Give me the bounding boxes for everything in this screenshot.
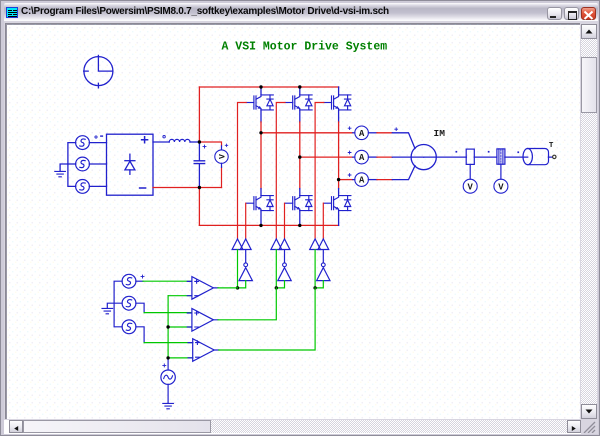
wire ctrl B to comp2 bbox=[136, 303, 144, 312]
wire ctrl A to comp1 bbox=[136, 280, 143, 282]
wire phase C bbox=[339, 179, 353, 181]
wire V probe top bbox=[199, 142, 221, 188]
wire inductor to bus bbox=[190, 141, 199, 143]
inverter leg 2 bbox=[271, 87, 312, 290]
voltage probe torque bbox=[494, 179, 508, 193]
voltage probe speed bbox=[463, 179, 477, 193]
wire carrier top bbox=[167, 358, 169, 370]
inverter leg 1 bbox=[232, 87, 273, 290]
wire phase A to motor bbox=[368, 132, 377, 134]
ammeter IA bbox=[348, 126, 368, 140]
sine source ctrl C bbox=[122, 320, 136, 334]
svg-text:IM: IM bbox=[434, 128, 446, 139]
node bottom rail junctions bbox=[259, 224, 262, 227]
wire phase A bbox=[261, 132, 353, 134]
ground G1 bbox=[55, 171, 66, 176]
marker dots source A bbox=[95, 136, 97, 138]
voltage probe VDC bbox=[215, 150, 228, 163]
wire DC+ riser bbox=[198, 87, 200, 142]
sine source ctrl B bbox=[122, 296, 136, 310]
ground G2 bbox=[102, 308, 113, 313]
wire comp3 output bbox=[219, 288, 315, 350]
ammeter IC bbox=[348, 173, 368, 187]
svg-text:V: V bbox=[218, 154, 227, 159]
node phase B bbox=[298, 155, 301, 158]
simulation control clock bbox=[84, 55, 113, 87]
vertical scrollbar bbox=[581, 24, 597, 419]
marker plus ctrl A bbox=[141, 275, 144, 278]
node carrier bus junctions bbox=[166, 325, 169, 328]
marker plus carrier bbox=[163, 364, 166, 367]
node phase A bbox=[259, 131, 262, 134]
AC source VB bbox=[76, 157, 90, 171]
wire phase C to motor bbox=[368, 179, 377, 181]
wire comp2 minus branch bbox=[168, 326, 192, 328]
wire carrier bus bbox=[167, 296, 169, 358]
wire carrier bottom bbox=[167, 384, 169, 403]
marker ring bbox=[163, 136, 165, 138]
wire AC left bus bbox=[60, 143, 76, 187]
marker plus probe bbox=[225, 144, 228, 147]
wire comp1 minus branch bbox=[168, 295, 192, 297]
wire DC- bottom rail bbox=[199, 224, 338, 226]
terminal T bbox=[553, 155, 556, 158]
wire AC to rectifier bbox=[89, 143, 106, 187]
mechanical load bbox=[523, 149, 549, 165]
speed sensor bbox=[466, 149, 474, 164]
comparator 1 bbox=[187, 277, 218, 300]
rectifier BD3 bbox=[107, 134, 154, 195]
node DC+ junction bbox=[198, 140, 201, 143]
svg-text:A VSI Motor Drive System: A VSI Motor Drive System bbox=[222, 41, 388, 54]
wire comp1 output bbox=[218, 287, 238, 289]
node DC- junction bbox=[198, 186, 201, 189]
inverter leg 3 bbox=[310, 87, 351, 290]
ammeter IB bbox=[348, 150, 368, 164]
motor IM bbox=[411, 145, 436, 170]
wire shaft bbox=[424, 156, 553, 158]
triangle carrier source bbox=[161, 370, 175, 384]
node top rail junctions bbox=[259, 85, 262, 88]
wire phase B to motor bbox=[368, 156, 377, 158]
comparator 2 bbox=[187, 309, 218, 332]
wire phase B bbox=[300, 156, 353, 158]
wire comp3 minus branch bbox=[168, 357, 193, 359]
wire torque sensor to probe bbox=[500, 164, 502, 179]
svg-text:T: T bbox=[549, 142, 554, 150]
wire ctrl left bus bbox=[107, 281, 122, 327]
wire DC+ top rail bbox=[199, 86, 338, 88]
wire rectifier + output bbox=[153, 141, 169, 143]
wire ctrl C to comp3 bbox=[136, 327, 144, 343]
wire DC- rail bbox=[153, 188, 222, 226]
capacitor C1 bbox=[194, 142, 206, 188]
ground G3 bbox=[163, 403, 174, 408]
AC source VC bbox=[76, 180, 90, 194]
node phase C bbox=[337, 178, 340, 181]
torque sensor bbox=[497, 149, 505, 164]
inductor L1 bbox=[169, 139, 190, 142]
marker shaft dots bbox=[456, 151, 458, 153]
horizontal scrollbar bbox=[9, 420, 581, 433]
wire speed sensor to probe bbox=[469, 164, 471, 179]
AC source VA bbox=[76, 136, 90, 150]
wire comp2 output bbox=[218, 288, 276, 320]
comparator 3 bbox=[188, 339, 219, 362]
sine source ctrl A bbox=[122, 274, 136, 288]
